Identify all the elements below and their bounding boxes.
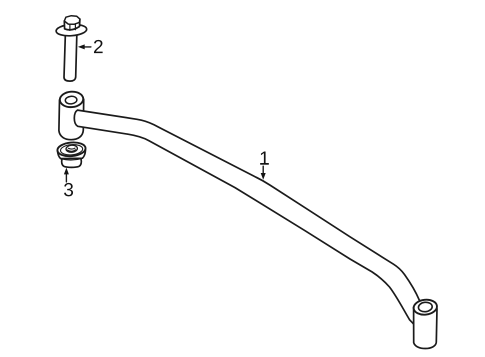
right bushing top ellipse bbox=[413, 299, 438, 316]
left bushing housing body bbox=[59, 99, 84, 140]
nut boss bbox=[66, 145, 78, 153]
label 1 text bbox=[260, 152, 269, 165]
bolt hex head bbox=[64, 16, 80, 31]
label 3 arrow bbox=[64, 168, 69, 182]
right bushing hole bbox=[418, 302, 433, 313]
label 2 arrow bbox=[78, 44, 91, 49]
bolt (part 2) shank bbox=[64, 32, 77, 81]
nut flange cone bbox=[58, 150, 86, 160]
bolt flange bbox=[56, 23, 87, 36]
left bushing housing top ellipse bbox=[59, 91, 83, 108]
nut thread arcs bbox=[67, 148, 75, 151]
left bushing hole bbox=[65, 96, 77, 105]
stabilizer bar (part 1) bbox=[74, 110, 427, 331]
nut flange top bbox=[57, 141, 86, 157]
nut (part 3) lower cylinder bbox=[62, 159, 82, 168]
label 2 text bbox=[94, 40, 103, 53]
nut flange inner rim bbox=[60, 144, 83, 156]
right bushing body bbox=[414, 308, 437, 349]
label 3 text bbox=[64, 183, 73, 196]
label 1 arrow bbox=[261, 166, 266, 180]
